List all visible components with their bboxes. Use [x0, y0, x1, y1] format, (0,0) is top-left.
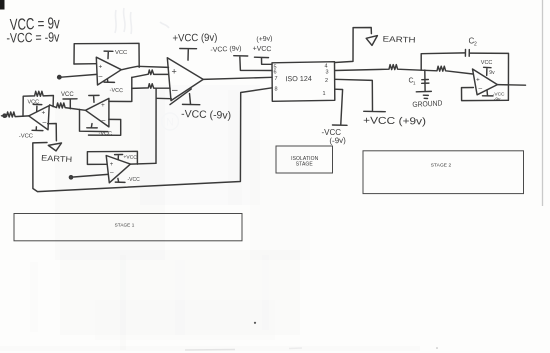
svg-text:VCC: VCC [481, 60, 493, 66]
svg-text:9v: 9v [489, 70, 495, 76]
svg-text:2: 2 [474, 42, 477, 48]
svg-text:3: 3 [326, 70, 329, 76]
svg-text:-VCC: -VCC [128, 177, 141, 183]
svg-text:2: 2 [325, 78, 328, 84]
svg-text:VCC: VCC [115, 50, 127, 56]
svg-text:+VCC: +VCC [123, 154, 137, 160]
svg-text:-VCC: -VCC [98, 131, 112, 138]
svg-text:–: – [479, 85, 483, 92]
svg-text:+VCC: +VCC [252, 46, 271, 54]
svg-text:-9v: -9v [494, 96, 501, 102]
svg-text:EARTH: EARTH [41, 154, 73, 165]
svg-text:+VCC (+9v): +VCC (+9v) [363, 116, 426, 128]
svg-text:-VCC: -VCC [109, 88, 123, 95]
svg-text:–: – [102, 118, 106, 125]
svg-text:VCC: VCC [28, 99, 40, 105]
svg-text:–: – [172, 85, 178, 96]
svg-text:–: – [43, 119, 47, 126]
svg-text:GROUND: GROUND [412, 98, 443, 109]
svg-text:VCC: VCC [61, 92, 74, 98]
svg-text:STAGE: STAGE [296, 162, 314, 168]
svg-text:6: 6 [274, 70, 277, 76]
svg-text:-VCC: -VCC [19, 134, 33, 140]
svg-text:+: + [42, 110, 46, 117]
svg-text:STAGE 2: STAGE 2 [431, 162, 452, 168]
svg-text:ISO 124: ISO 124 [285, 74, 312, 83]
svg-text:-VCC (9v): -VCC (9v) [210, 45, 241, 54]
svg-text:1: 1 [323, 91, 326, 97]
svg-text:–: – [110, 169, 114, 176]
svg-text:+: + [476, 77, 480, 84]
svg-text:+: + [101, 102, 105, 109]
svg-text:+: + [172, 67, 177, 77]
svg-text:N: N [166, 117, 174, 129]
svg-text:7: 7 [275, 76, 278, 82]
svg-text:-VCC = -9v: -VCC = -9v [6, 30, 59, 46]
svg-text:(+9v): (+9v) [256, 35, 273, 43]
svg-text:–: – [99, 73, 103, 80]
svg-text:EARTH: EARTH [382, 35, 416, 45]
svg-text:+: + [110, 162, 114, 168]
svg-text:+: + [99, 64, 103, 71]
svg-text:+VCC (9v): +VCC (9v) [172, 32, 217, 45]
svg-text:-VCC (-9v): -VCC (-9v) [181, 108, 231, 122]
svg-text:STAGE 1: STAGE 1 [115, 223, 135, 228]
svg-text:1: 1 [413, 81, 416, 86]
svg-text:(-9v): (-9v) [329, 136, 346, 146]
svg-text:8: 8 [275, 87, 278, 93]
